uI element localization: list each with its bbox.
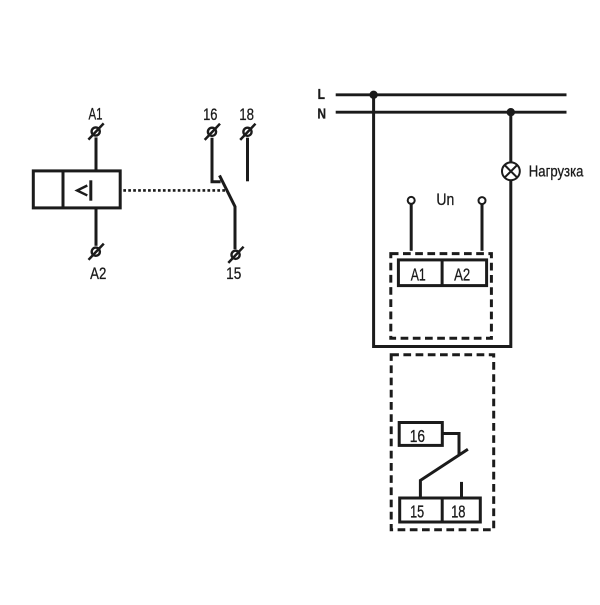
label N (neutral) — [317, 105, 326, 122]
dashed enclosure (relay supply section) — [391, 254, 492, 339]
wire from 16 box with fixed-contact hook — [442, 434, 459, 456]
svg-text:N: N — [317, 105, 326, 122]
wire from N junction down to load — [509, 112, 512, 162]
wire from right supply terminal to A2 — [481, 205, 484, 251]
label Un (supply voltage) — [436, 191, 454, 209]
symbol U< (undervoltage) inside device box — [77, 180, 91, 200]
label A1 (coil terminal, left symbol) — [88, 106, 102, 125]
terminal A2 (circle with slash) — [89, 244, 104, 260]
wire 16 with fixed-contact hook — [212, 138, 221, 182]
dotted mechanical link from relay to contact — [123, 189, 225, 192]
L line (phase bus) — [336, 93, 567, 96]
svg-text:15: 15 — [410, 502, 424, 522]
svg-text:Un: Un — [436, 191, 454, 209]
device box K1 (undervoltage relay symbol) — [33, 171, 120, 208]
supply terminal left (open circle) — [408, 197, 415, 204]
svg-text:18: 18 — [239, 106, 254, 125]
label L (phase) — [318, 86, 325, 103]
svg-text:15: 15 — [226, 265, 241, 284]
label A1 (terminal block) — [411, 265, 426, 285]
svg-text:16: 16 — [203, 105, 217, 124]
label 15 (terminal block) — [410, 502, 424, 522]
dashed enclosure (relay contact section) — [391, 355, 494, 530]
label A2 — [90, 265, 106, 284]
contact blade 15 (changeover moving contact) — [220, 175, 236, 249]
svg-text:A2: A2 — [454, 266, 470, 285]
wire A1 to device box — [95, 137, 98, 171]
wire from left supply terminal to A1 — [410, 204, 413, 251]
terminal 16 (circle with slash) — [205, 124, 220, 140]
label Нагрузка (load) — [529, 163, 584, 180]
label 18 — [239, 106, 254, 125]
wire from L down, bottom run, up to load — [374, 95, 511, 347]
label 18 (terminal block) — [451, 503, 465, 522]
N line (neutral bus) — [336, 111, 567, 114]
load lamp symbol — [502, 162, 520, 180]
terminal A1 (circle with slash) — [88, 123, 103, 139]
junction on N — [507, 108, 515, 116]
svg-text:16: 16 — [410, 427, 426, 446]
wire 18 (open fixed contact) — [246, 138, 249, 182]
terminal box 16 — [399, 423, 442, 446]
wire A2 from device box — [95, 208, 98, 246]
terminal 15 (circle with slash) — [228, 247, 243, 263]
supply terminal right (open circle) — [479, 197, 486, 204]
label A2 (terminal block) — [454, 266, 470, 285]
svg-text:A1: A1 — [411, 265, 426, 285]
junction on L — [369, 91, 377, 99]
label 15 — [226, 265, 241, 284]
label 16 (terminal box) — [410, 427, 426, 446]
svg-text:A2: A2 — [90, 265, 106, 284]
svg-text:L: L — [318, 86, 325, 103]
label 16 (contact terminal) — [203, 105, 217, 124]
terminal block 15 18 — [400, 498, 481, 522]
contact blade (changeover moving contact, lower box) — [420, 449, 468, 497]
terminal 18 (circle with slash) — [240, 124, 255, 140]
svg-text:Нагрузка: Нагрузка — [529, 163, 584, 180]
svg-text:18: 18 — [451, 503, 465, 522]
terminal block A1 A2 — [398, 260, 486, 286]
wire stub above 18 — [460, 482, 463, 498]
svg-text:A1: A1 — [88, 106, 102, 125]
